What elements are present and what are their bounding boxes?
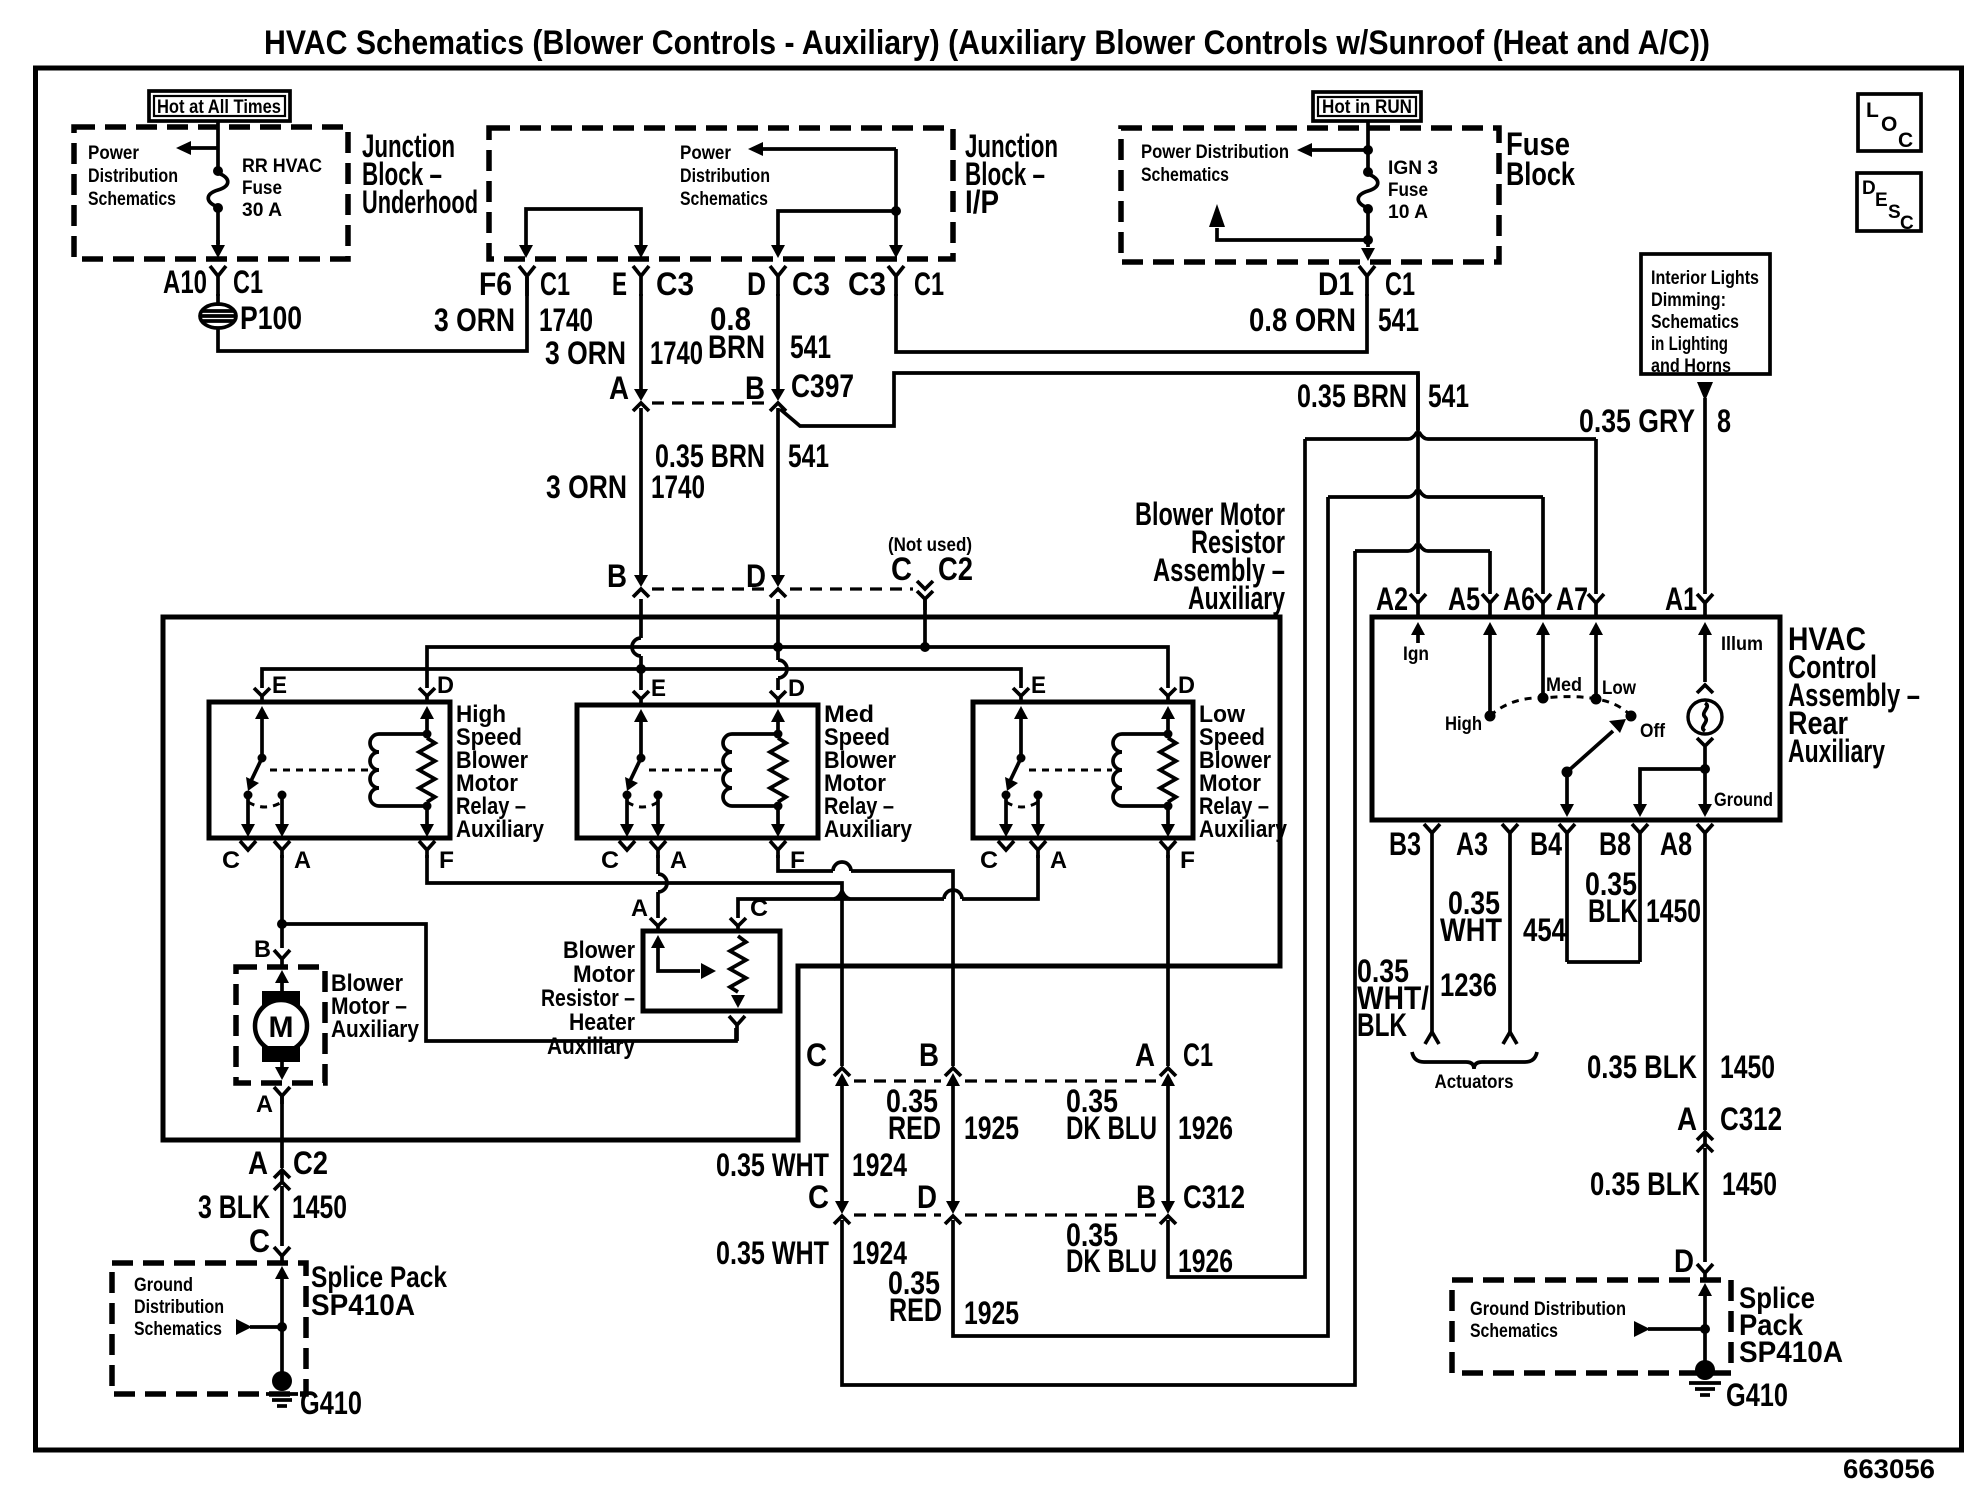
svg-text:Power Distribution: Power Distribution (1141, 142, 1289, 163)
svg-text:C: C (249, 1223, 270, 1259)
label HVAC Control Assembly Rear Auxiliary (1788, 621, 1920, 769)
heater resistor terminal A (631, 895, 666, 933)
relay 2 terminal E (633, 691, 649, 706)
wire bus to C1 exit (894, 211, 898, 246)
connector D1 C1 (1318, 266, 1415, 302)
wire label 3 ORN 1740 (F6) (434, 302, 593, 338)
svg-text:A: A (1050, 847, 1067, 874)
svg-text:C3: C3 (656, 266, 694, 302)
svg-text:B8: B8 (1599, 826, 1631, 862)
svg-text:C3: C3 (792, 266, 830, 302)
wire relay1 A down to junction (280, 855, 284, 948)
wire branch down to A6 (1541, 497, 1545, 594)
svg-text:HVAC Schematics (Blower Contro: HVAC Schematics (Blower Controls - Auxil… (264, 24, 1710, 62)
svg-text:1925: 1925 (964, 1110, 1019, 1146)
label Low Speed Blower Motor Relay Auxiliary (1199, 701, 1288, 843)
svg-text:C2: C2 (938, 551, 973, 587)
wire label 0.35 BLK 1450 (A8 upper) (1587, 1049, 1775, 1085)
svg-text:F: F (1180, 847, 1195, 874)
label High Speed Blower Motor Relay Auxiliary (456, 701, 545, 843)
connector A10 C1 (163, 264, 263, 300)
ground G410 (left) (266, 1371, 362, 1421)
svg-text:Ground: Ground (1714, 790, 1773, 811)
HVAC control box (1372, 617, 1780, 820)
relay 1 contact A (278, 791, 287, 800)
relay 1 terminal A (274, 841, 311, 874)
svg-text:1740: 1740 (650, 335, 703, 371)
wire fuse output branch with up arrow (1209, 204, 1368, 240)
wire C2-C down to D-bus (923, 599, 927, 649)
svg-text:A10: A10 (163, 264, 207, 300)
connector A C312 (A8 wire) (1677, 1101, 1782, 1152)
label IGN 3 Fuse 10 A (1388, 158, 1438, 223)
svg-text:C: C (891, 551, 912, 587)
terminal A1 (1665, 581, 1713, 618)
svg-text:A: A (631, 895, 648, 922)
connector C1 cavity C (806, 1037, 850, 1086)
switch contact Low (1591, 678, 1637, 705)
wire relay3 F down to connector C1 (1166, 855, 1170, 1066)
svg-text:I/P: I/P (965, 184, 999, 220)
relay 1 contact C (244, 791, 253, 800)
svg-text:Heater: Heater (569, 1009, 635, 1036)
splice pack terminal C (249, 1223, 290, 1264)
relay 1 switch pivot (258, 754, 267, 763)
dashed connector line C397 (652, 401, 766, 404)
svg-text:in Lighting: in Lighting (1651, 334, 1728, 355)
svg-text:541: 541 (1378, 302, 1419, 338)
wire 1925 D down and right to riser (953, 497, 1328, 1336)
wire label 0.35 WHT 1236 (A3) (1440, 885, 1502, 1003)
svg-text:D: D (788, 675, 805, 702)
wire D down to C2 connector (776, 408, 780, 575)
wire branch down to A5 (1488, 551, 1492, 594)
junction block underhood dashed box (74, 127, 348, 259)
wire hot in run down (1366, 121, 1370, 172)
svg-text:D: D (1178, 672, 1195, 699)
DESC box (1857, 173, 1921, 234)
label Blower Motor Resistor Assembly Auxiliary (1135, 496, 1285, 616)
relay 3 coil (1113, 734, 1122, 806)
ground net junction dot (1700, 764, 1710, 774)
svg-text:Auxiliary: Auxiliary (1188, 580, 1285, 616)
svg-text:1926: 1926 (1178, 1243, 1233, 1279)
motor exit arrow (275, 1062, 289, 1080)
svg-text:Ground Distribution: Ground Distribution (1470, 1299, 1626, 1320)
terminal A2 (1376, 581, 1426, 618)
relay 2 terminal C (unused chevron) (601, 841, 635, 874)
wire label 0.35 RED 1925 (lower) (888, 1265, 1019, 1331)
A5 entry arrow and wire to High (1483, 622, 1497, 714)
svg-text:0.35 BLK: 0.35 BLK (1587, 1049, 1697, 1085)
svg-text:Auxiliary: Auxiliary (1199, 816, 1288, 843)
terminal B8 (1599, 824, 1648, 862)
svg-text:0.35 GRY: 0.35 GRY (1579, 403, 1695, 439)
wire relay1 F bus to 1924 riser (427, 855, 842, 1066)
svg-text:Motor: Motor (573, 961, 635, 988)
wire label 0.35 WHT 1924 (lower) (716, 1235, 907, 1271)
relay 1 E entry arrow (255, 706, 269, 759)
connector C312 cavity B (1136, 1179, 1245, 1224)
wire label 0.35 DK BLU 1926 (lower) (1066, 1217, 1233, 1279)
svg-text:Actuators: Actuators (1435, 1072, 1514, 1093)
junction dot fuse output (1363, 235, 1373, 245)
relay 2 coil (723, 734, 732, 806)
svg-text:A: A (609, 370, 629, 406)
wire relay3 A bus to heater C (hop over 953, merge into 842) (962, 855, 1038, 899)
branch splice 3 (to 1924 riser and A5) (1355, 544, 1490, 551)
svg-text:E: E (1875, 190, 1888, 211)
label Splice Pack SP410A (311, 1261, 447, 1322)
svg-text:Resistor –: Resistor – (541, 985, 635, 1012)
svg-text:Auxiliary: Auxiliary (331, 1016, 420, 1043)
relay 2 terminal F (770, 841, 805, 874)
svg-text:1450: 1450 (1646, 893, 1701, 929)
wire E C3 down (3 ORN 1740) (639, 294, 643, 391)
wire A8 ground lower (1703, 1148, 1707, 1262)
svg-text:Ign: Ign (1403, 644, 1429, 665)
svg-text:Underhood: Underhood (362, 184, 478, 220)
heater resistor bottom terminal (729, 1016, 745, 1041)
relay 3 contact dashed arc (1006, 802, 1038, 807)
D-bus wire 541 (427, 647, 1168, 688)
svg-text:D1: D1 (1318, 266, 1354, 302)
wire B down between connectors (951, 1082, 955, 1203)
wire A3 actuator (1503, 843, 1517, 1044)
label Ground Distribution Schematics (right) (1470, 1299, 1626, 1342)
svg-text:Hot at All Times: Hot at All Times (157, 97, 281, 118)
wire 1926 B down and right to riser (1168, 439, 1305, 1277)
label Power Distribution Schematics (1141, 142, 1289, 186)
relay 3 contact C (1002, 791, 1011, 800)
ground G410 (right) (1689, 1360, 1788, 1413)
heater resistor element (730, 936, 746, 992)
svg-text:3 ORN: 3 ORN (546, 469, 627, 505)
A2 Ign entry arrow (1403, 622, 1429, 665)
wire lamp to A8 exit (1698, 769, 1712, 817)
relay 2 switch arm (625, 758, 641, 791)
arrow from ground distribution schematics (right) (1634, 1321, 1710, 1337)
wire D C3 down (0.8 BRN 541) (776, 294, 780, 391)
relay 1 terminal C (unused chevron) (222, 841, 256, 874)
svg-text:Schematics: Schematics (680, 189, 768, 210)
svg-text:L: L (1866, 99, 1879, 122)
svg-text:C1: C1 (1183, 1037, 1213, 1073)
svg-text:3 ORN: 3 ORN (434, 302, 515, 338)
label RR HVAC Fuse 30 A (242, 156, 322, 221)
relay 1 F exit arrow (420, 806, 434, 837)
junction dot E-bus (636, 664, 646, 674)
grommet P100 (200, 300, 302, 336)
relay 3 switch pivot (1017, 754, 1026, 763)
relay 3 coil links (1122, 732, 1168, 736)
junction dot relay1 A branch (277, 919, 287, 929)
svg-text:D: D (746, 558, 766, 594)
svg-text:Interior Lights: Interior Lights (1651, 268, 1759, 289)
svg-text:D: D (747, 266, 766, 302)
wire bus to D exit (778, 211, 896, 246)
dashed connector line C312 (854, 1213, 941, 1216)
svg-text:DK BLU: DK BLU (1066, 1110, 1157, 1146)
svg-text:A: A (1677, 1101, 1697, 1137)
connector E C3 (612, 266, 694, 302)
A7 entry arrow and wire to Low (1589, 622, 1603, 697)
svg-text:C397: C397 (791, 368, 854, 404)
relay 2 contact dashed arc (627, 802, 658, 807)
svg-text:E: E (651, 675, 666, 702)
svg-text:IGN 3: IGN 3 (1388, 158, 1438, 179)
svg-text:1740: 1740 (651, 469, 705, 505)
junction dot D-bus (773, 642, 783, 652)
fuse RR HVAC 30A (208, 166, 228, 213)
relay 1 actuation dashed link (270, 769, 368, 772)
svg-text:3 BLK: 3 BLK (198, 1189, 270, 1225)
svg-text:C: C (222, 847, 240, 874)
connector C1 cavity A (1135, 1037, 1213, 1086)
arrow to power distribution schematics (176, 141, 219, 155)
switch contact Med (1538, 675, 1583, 704)
wire label 0.35 BLK 1450 (A8 lower) (1590, 1166, 1777, 1202)
svg-text:B: B (745, 370, 765, 406)
wire label 0.35 WHT/BLK (B3) (1357, 953, 1429, 1043)
relay 2 A exit arrow (651, 797, 665, 837)
relay 2 contact C (623, 791, 632, 800)
svg-text:B: B (919, 1037, 939, 1073)
label Blower Motor Auxiliary (331, 970, 420, 1043)
relay 3 terminal E (1013, 688, 1029, 703)
illumination lamp (1688, 700, 1722, 734)
svg-text:C: C (808, 1179, 829, 1215)
motor entry arrow (275, 970, 289, 998)
svg-text:BRN: BRN (708, 329, 765, 365)
connector C397 cavity B (745, 368, 854, 411)
svg-text:G410: G410 (300, 1385, 362, 1421)
svg-text:D: D (917, 1179, 937, 1215)
arrow out of interior lights box (1697, 382, 1713, 401)
relay 2 contact A (654, 791, 663, 800)
svg-text:A: A (294, 847, 311, 874)
relay 1 switch arm (246, 758, 262, 791)
wire branch down to A7 (1594, 439, 1598, 594)
junction dot (891, 206, 901, 216)
connector C3 C1 (848, 266, 944, 302)
label Med Speed Blower Motor Relay Auxiliary (824, 701, 913, 843)
junction dot (1363, 145, 1373, 155)
svg-text:1450: 1450 (292, 1189, 347, 1225)
splice entry arrow (right) (1698, 1283, 1712, 1366)
svg-text:C1: C1 (914, 266, 944, 302)
svg-text:A: A (670, 847, 687, 874)
jumper connecting B4-B8 (1567, 960, 1640, 964)
connector C2 cavity B (607, 558, 649, 597)
svg-text:F: F (439, 847, 454, 874)
svg-text:1926: 1926 (1178, 1110, 1233, 1146)
label Power Distribution Schematics (88, 143, 178, 210)
relay 3 contact A (1034, 791, 1043, 800)
wire 3 BLK 1450 (280, 1186, 284, 1246)
wire B(ORN) into box, hop over D-bus, join E-bus (639, 599, 643, 638)
svg-text:A6: A6 (1503, 581, 1535, 617)
label Junction Block I/P (965, 128, 1058, 220)
label Junction Block Underhood (362, 128, 478, 220)
wire label 3 BLK 1450 (198, 1189, 347, 1225)
label Fuse Block (1506, 126, 1575, 192)
wire D1 down left to junction I/P C1 (896, 294, 1367, 352)
svg-text:Dimming:: Dimming: (1651, 290, 1726, 311)
relay 2 E entry arrow (634, 709, 648, 759)
LOC box (1858, 94, 1921, 152)
label Hot at All Times (149, 91, 290, 121)
relay 3 A exit arrow (1031, 797, 1045, 837)
svg-text:Auxiliary: Auxiliary (1788, 733, 1885, 769)
svg-text:Ground: Ground (134, 1275, 193, 1296)
connector C312 cavity D (917, 1179, 961, 1224)
A1 entry arrow and wire to lamp (1698, 622, 1763, 682)
junction dot C2-C on D-bus (920, 642, 930, 652)
connector C312 cavity C (808, 1179, 850, 1224)
svg-text:A: A (1135, 1037, 1155, 1073)
svg-text:Auxiliary: Auxiliary (824, 816, 913, 843)
dashed connector line C2 (652, 587, 766, 590)
svg-text:E: E (612, 266, 627, 302)
lamp terminal chevron upper (1697, 685, 1713, 693)
svg-text:C: C (1900, 213, 1914, 234)
svg-text:C: C (1898, 129, 1913, 152)
wire fuse to box exit (216, 208, 220, 244)
svg-text:M: M (269, 1011, 294, 1044)
svg-text:Schematics: Schematics (134, 1319, 222, 1340)
relay 1 terminal D (419, 688, 435, 703)
wire motor A down through box edge (280, 1096, 284, 1168)
E-bus wire 1740 (262, 669, 1021, 688)
relay 2 actuation dashed link (649, 769, 722, 772)
svg-text:D: D (1862, 178, 1876, 199)
svg-text:Illum: Illum (1721, 634, 1763, 655)
svg-text:Off: Off (1640, 721, 1666, 742)
svg-text:BLK: BLK (1357, 1007, 1407, 1043)
fuse block dashed box (1121, 128, 1499, 262)
terminal A7 (1556, 581, 1604, 618)
svg-text:Fuse: Fuse (242, 178, 282, 199)
svg-text:Auxiliary: Auxiliary (547, 1033, 636, 1060)
arrow from ground distribution schematics (236, 1319, 287, 1335)
wire label 0.35 RED 1925 (upper) (886, 1083, 1019, 1146)
svg-text:F6: F6 (479, 266, 512, 302)
switch contact High (1445, 711, 1496, 736)
wire relay2 F bus to 1925 riser (hop over 842) (778, 855, 833, 871)
svg-text:A5: A5 (1448, 581, 1480, 617)
motor terminal A (256, 1087, 290, 1118)
wire label 0.35 BRN 541 (below C397) (655, 438, 829, 474)
svg-text:Schematics: Schematics (88, 189, 176, 210)
fuse IGN 3 10A (1358, 167, 1378, 214)
wire relay2 A down to heater resistor (hop over F1 bus) (656, 855, 660, 874)
blower motor dashed box (236, 967, 325, 1083)
heater A entry arrow and internal bend (651, 935, 716, 979)
svg-text:WHT: WHT (1440, 912, 1502, 948)
wire label 3 ORN 1740 (lower) (546, 469, 705, 505)
svg-text:0.35 WHT: 0.35 WHT (716, 1235, 829, 1271)
heater resistor terminal C (730, 895, 768, 933)
connector A C2 (248, 1145, 328, 1190)
svg-text:A: A (248, 1145, 268, 1181)
wire 0.35 BRN 541 label (right) (1297, 378, 1469, 414)
arrow to power distribution schematics (1297, 143, 1368, 157)
relay 2 F exit arrow (771, 806, 785, 837)
svg-text:10 A: 10 A (1388, 202, 1428, 223)
svg-text:663056: 663056 (1843, 1454, 1935, 1484)
relay 3 box (973, 702, 1193, 838)
svg-text:B4: B4 (1530, 826, 1562, 862)
svg-text:and Horns: and Horns (1651, 356, 1731, 377)
svg-text:SP410A: SP410A (311, 1289, 415, 1322)
svg-text:B: B (607, 558, 627, 594)
wire label 0.8 BRN 541 (D) (708, 301, 831, 365)
svg-text:A: A (256, 1091, 273, 1118)
svg-text:RED: RED (888, 1110, 941, 1146)
wire label 0.8 ORN 541 (1249, 302, 1419, 338)
svg-text:Blower: Blower (563, 937, 635, 964)
svg-text:541: 541 (790, 329, 831, 365)
arrow exit underhood box (211, 240, 225, 258)
svg-text:Power: Power (680, 143, 732, 164)
relay 3 terminal A (1030, 841, 1067, 874)
relay 2 resistor (770, 738, 786, 802)
wire A down between connectors (1166, 1082, 1170, 1203)
relay 1 terminal F (419, 841, 454, 874)
switch contact Off (1626, 711, 1666, 743)
svg-text:C: C (750, 895, 768, 922)
heater resistor box (643, 931, 780, 1011)
junction block I/P dashed box (489, 128, 953, 259)
wire B8 jumper (1638, 843, 1642, 962)
svg-text:454: 454 (1523, 912, 1566, 948)
switch arm with arrow (1567, 719, 1626, 772)
svg-text:B: B (254, 936, 271, 963)
wire interior lights down to A1 (1703, 398, 1707, 594)
terminal B3 (1389, 824, 1440, 862)
terminal A6 (1503, 581, 1551, 618)
svg-text:D: D (1674, 1243, 1694, 1279)
relay 3 switch arm (1005, 758, 1021, 791)
svg-text:C1: C1 (233, 264, 263, 300)
relay 1 C exit arrow (241, 797, 255, 837)
svg-text:High: High (1445, 714, 1482, 735)
svg-text:Schematics: Schematics (1651, 312, 1739, 333)
relay 2 C exit arrow (620, 797, 634, 837)
relay 1 coil (370, 734, 379, 806)
relay 2 terminal D (770, 691, 786, 706)
relay 3 F exit arrow (1161, 806, 1175, 837)
jumper wire F6-E (526, 209, 641, 248)
relay 3 terminal F (1160, 841, 1195, 874)
branch splice 2 (to 1925 riser and A6) (1328, 490, 1543, 497)
svg-text:DK BLU: DK BLU (1066, 1243, 1157, 1279)
svg-text:A7: A7 (1556, 581, 1588, 617)
svg-text:3 ORN: 3 ORN (545, 335, 626, 371)
relay 3 E entry arrow (1014, 706, 1028, 759)
svg-text:1236: 1236 (1440, 967, 1497, 1003)
terminal A8 (1660, 824, 1713, 862)
svg-text:Distribution: Distribution (134, 1297, 224, 1318)
svg-text:30 A: 30 A (242, 200, 282, 221)
svg-text:541: 541 (788, 438, 829, 474)
wire label 0.35 GRY 8 (1579, 403, 1731, 439)
svg-text:D: D (437, 672, 454, 699)
wire P100 down right to F6 (218, 277, 527, 351)
wire branch to heater resistor bottom (282, 924, 736, 1041)
svg-text:1450: 1450 (1722, 1166, 1777, 1202)
